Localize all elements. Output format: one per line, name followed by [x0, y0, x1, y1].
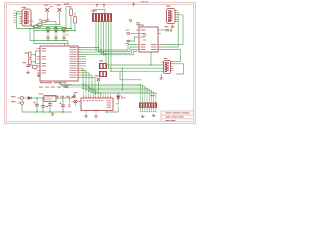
connector X2 contacts	[171, 11, 173, 21]
wire R8 left	[35, 23, 38, 25]
junction branch top	[122, 68, 123, 69]
wire R4 to net	[31, 54, 36, 56]
junctions gnd rail	[36, 111, 63, 112]
capacitor C2 label	[126, 42, 130, 45]
resistor R2	[70, 9, 73, 16]
connector X2 body	[167, 9, 176, 24]
wire VCC to SV1	[93, 8, 105, 10]
wire C14 stub	[68, 98, 70, 104]
title block box	[161, 111, 194, 122]
crystal Q1 body	[33, 65, 37, 68]
wire bus row lower drop	[64, 44, 66, 47]
wire Q2 emitter	[47, 32, 49, 37]
wire net elbow B	[61, 27, 63, 31]
wire xtal net vertical	[35, 51, 37, 65]
wire net RX horizontal	[17, 28, 72, 30]
wire IC1 mid pin stubs	[81, 57, 86, 66]
wire D2 down	[117, 99, 119, 103]
ground below X2	[171, 25, 175, 28]
transistor T4	[58, 8, 62, 12]
junction D2 bus	[118, 93, 119, 94]
wire X3 pin2 down	[21, 104, 23, 112]
wire elbow left upper	[29, 29, 31, 41]
power flag circle near IC2	[129, 19, 131, 21]
labels below IC1 row	[39, 87, 61, 88]
resistor R7	[42, 20, 46, 22]
wire IC1 PD6 to bundle	[81, 77, 95, 93]
dip switch S1 top label	[150, 95, 155, 96]
ground S1 b	[152, 114, 156, 117]
wire Q3 emitter	[55, 32, 57, 37]
junction PB7 bus	[105, 54, 106, 55]
ground IC3 a	[84, 114, 88, 117]
wire X1 bottom elbow	[31, 26, 34, 31]
junction PB6 bus	[103, 51, 104, 52]
wire net to IC1 pin	[36, 50, 37, 52]
wire C2 to IC2 pin2	[130, 37, 136, 41]
wire bus row lower	[34, 43, 68, 45]
transistor Q3 label	[54, 27, 58, 28]
resistor R7 label	[47, 18, 50, 21]
wire T1 to IC3	[77, 101, 81, 103]
ic IC2 body	[139, 27, 158, 52]
voltage regulator IC5 body	[44, 96, 56, 102]
supply VCC mark top right	[132, 3, 134, 7]
microcontroller IC1 pin names left column	[42, 48, 47, 73]
wire IC5 out rail	[56, 97, 73, 99]
connector X1 insert bar	[24, 11, 27, 24]
wire IC1 pin PB4 to bus	[78, 47, 99, 49]
voltage regulator IC5 label above	[39, 93, 44, 96]
transistor T6 label	[64, 81, 67, 84]
resistor R8	[38, 23, 42, 25]
junctions bus to S1 drops	[140, 84, 157, 95]
ground below C9	[26, 71, 30, 74]
transistor T6 label2	[69, 83, 72, 86]
ground below crystal	[37, 74, 41, 77]
capacitor C13 plus	[59, 102, 61, 104]
capacitor C11 plates	[41, 106, 45, 108]
junction PB4 bus	[98, 47, 99, 48]
wire D2 top to bus	[117, 94, 119, 96]
ic IC2 right pins	[158, 30, 161, 50]
wire bus row upper	[30, 40, 68, 42]
microcontroller IC1 pin names right column	[70, 47, 77, 78]
junction T4 net	[59, 24, 60, 25]
ground power section	[51, 112, 55, 115]
junction X4 net elbow	[150, 64, 151, 65]
capacitor C14 label column	[68, 103, 71, 106]
capacitor C3 label	[165, 26, 169, 27]
wire SV1 bus line 5 to connector X4	[106, 22, 162, 65]
resistor R1 label	[64, 4, 69, 5]
wire R9 left	[32, 26, 35, 28]
junction column A	[65, 28, 67, 30]
junctions bottom bus staircase	[59, 84, 95, 95]
wire IC1 PD5 to bundle	[81, 75, 92, 92]
capacitor C9 plates	[26, 65, 30, 66]
capacitor C2 near IC2	[127, 40, 131, 41]
diode D1	[28, 97, 31, 100]
connector X4 right pins	[171, 62, 174, 71]
connector X4 insert bar	[165, 62, 167, 72]
wire IC5 gnd down	[49, 101, 51, 103]
junction Q2 net	[47, 40, 49, 42]
resistor R9	[34, 25, 38, 27]
wire R9 net vertical	[31, 24, 33, 27]
wire R3 bottom	[74, 23, 76, 31]
screw terminal X3 stubs	[18, 98, 21, 103]
junction rail b	[62, 97, 63, 98]
wire bottom bus lines	[60, 84, 156, 93]
resistor R4 label	[25, 53, 29, 54]
wire SV1 bus line 1 to IC2	[96, 22, 136, 50]
wire bus drops to IC3	[84, 84, 111, 95]
jumper JP1 label	[99, 60, 103, 61]
capacitor C12 stub bottom	[49, 106, 51, 112]
jumper JP1 body	[99, 63, 107, 69]
connector X2 label	[166, 6, 171, 7]
resistor R2 label	[68, 6, 72, 7]
wire SV1 bus line 4 to IC2	[104, 22, 138, 55]
transistor Q4	[62, 29, 65, 32]
transistor T5	[97, 78, 100, 81]
wire bus rows drop to IC	[67, 41, 69, 47]
resistor R7 label left	[39, 18, 42, 21]
jumper JP2 body	[99, 71, 107, 77]
pin header SV1 label	[92, 10, 97, 11]
wire SV1 bus line 7 to connector X4	[111, 22, 162, 71]
wire X1 lower to bus	[19, 20, 33, 22]
dip switch S1 body	[139, 103, 157, 108]
capacitor C10 plates	[35, 104, 39, 106]
voltage regulator IC5 text	[46, 95, 55, 98]
capacitor C9 label	[23, 62, 27, 63]
wire R7 right	[46, 20, 56, 22]
pin header SV1 body	[92, 13, 112, 22]
transistor T3 label2	[50, 5, 53, 8]
wire crystal link	[30, 65, 33, 67]
junction Q4 net	[63, 40, 65, 42]
ic IC3 top pins	[84, 96, 111, 98]
junction elbow upper	[29, 28, 30, 29]
capacitor C13 stub top	[62, 98, 64, 105]
ic IC3 bottom pins	[86, 111, 106, 114]
connector X1 pin numbers	[14, 10, 16, 23]
junction net elbow A	[55, 28, 56, 29]
wire T5 down	[98, 81, 100, 90]
connector X1 pins	[19, 12, 22, 24]
frame inner border	[7, 5, 194, 122]
ic IC2 pin name rows	[141, 30, 157, 50]
wire SV1 top stub 2	[104, 9, 106, 13]
wire SV1 bus line 3 to IC2	[101, 22, 136, 53]
wire IC2 pin to C3	[161, 29, 166, 31]
connector X4 left pins	[162, 62, 164, 71]
resistor R5	[29, 59, 31, 65]
transistor T6	[65, 85, 68, 88]
screw terminal X3 pin 1	[21, 97, 24, 100]
ground IC3 b	[94, 114, 98, 117]
wire C1 to IC2 pin	[130, 33, 136, 35]
junction branch bottom	[122, 89, 123, 90]
supply +5V label	[74, 92, 78, 93]
junction C11 tap	[42, 97, 43, 98]
junction T5 bundle	[98, 89, 99, 90]
capacitor C3 right of IC2	[166, 30, 170, 31]
led D2 label	[123, 96, 126, 99]
title block text line 3	[166, 120, 170, 121]
capacitor C4 cross mark	[170, 28, 173, 32]
wire R3 top	[74, 12, 76, 17]
led D2 bottom label	[116, 102, 119, 105]
capacitor C6 plates	[54, 37, 57, 38]
label column right of transistors	[66, 30, 69, 33]
junction T3 net	[47, 21, 48, 22]
capacitor C12 plates	[48, 104, 52, 106]
junction C10 tap	[36, 97, 37, 98]
wire T1 down	[75, 103, 77, 106]
junction rail c	[69, 97, 70, 98]
capacitor C13 plates	[61, 105, 65, 107]
wire Q2 pin1 up elbow	[150, 52, 152, 65]
wire S1 bottom stubs	[141, 108, 156, 111]
supply +5V arrow	[73, 95, 76, 98]
microcontroller IC1 right pins	[78, 48, 81, 78]
supply +5V symbol above SV1 a	[96, 4, 98, 8]
wire Q4 emitter	[63, 32, 65, 37]
connector X2 pins	[175, 10, 178, 22]
junction net elbow B	[61, 30, 62, 31]
wire C0 stub	[137, 24, 139, 27]
wire X2 RXD	[177, 13, 180, 48]
wire R5 to net	[31, 61, 36, 63]
junctions data bus elbows	[95, 49, 111, 71]
wire SV1 top stub	[92, 9, 94, 13]
wire C5 bottom	[47, 38, 49, 40]
connector X1 body	[22, 9, 31, 26]
wire SV1 bus line 2 to IC2	[99, 22, 137, 52]
capacitor C10 plus	[33, 102, 35, 104]
wire IC3 pin right down	[106, 111, 118, 113]
transistor T1	[74, 100, 77, 103]
junction column C	[74, 30, 76, 32]
connector X1 pin contacts	[27, 11, 29, 23]
wire bus drops to S1	[141, 84, 156, 102]
wire X4 net vertical right	[180, 50, 182, 62]
title block text line 1	[166, 112, 172, 113]
capacitor C10 stub top	[36, 98, 38, 104]
wire net TX horizontal	[34, 30, 76, 32]
wire X4 pin2 right	[174, 63, 184, 65]
wire R7 left	[39, 20, 42, 22]
wire X1 net vertical	[16, 12, 18, 29]
wire D1 to IC5	[31, 97, 44, 99]
wire R8 right	[42, 23, 60, 25]
wire R2 bottom	[70, 16, 72, 29]
wire IC1 PD3 to bundle	[81, 71, 86, 90]
junction X1 net	[16, 13, 18, 15]
junction PB5 bus	[100, 49, 101, 50]
junction xtal B	[35, 61, 36, 62]
wire X2 TXD	[178, 15, 183, 45]
junction column B	[70, 28, 72, 30]
capacitor C5 plates	[46, 37, 49, 38]
wire C7 bottom	[63, 38, 65, 40]
connector X4 body	[164, 61, 171, 74]
junction rail a	[57, 97, 58, 98]
ic IC3 pin name row	[83, 99, 103, 102]
transistor T3 label	[44, 5, 48, 6]
wire T3 collector down	[46, 12, 48, 21]
wire D2 lower	[117, 106, 119, 112]
capacitor C1 label	[126, 29, 130, 32]
dip switch S1 pin labels	[140, 110, 157, 113]
wire X4 pin2 drop	[176, 64, 184, 74]
screw terminal X3 pin 2	[21, 102, 24, 105]
led D2	[117, 96, 123, 99]
wire IC2 pin lower stub	[161, 49, 181, 51]
wire IC1 PD4 to bundle	[81, 73, 89, 91]
wire IC1 pin PB7 to bus	[78, 53, 106, 55]
capacitor C11 label	[45, 105, 48, 108]
connector X1 label	[22, 7, 27, 8]
ground below X4	[159, 76, 163, 79]
capacitor C0 above IC2 pin	[136, 23, 139, 24]
transistor T1 label	[73, 97, 77, 98]
wire elbow left lower	[33, 31, 35, 44]
junctions bus to IC3	[83, 84, 102, 95]
transistor Q3	[54, 29, 57, 32]
connector X4 contacts	[167, 63, 169, 71]
supply +5V symbol above SV1 b	[103, 4, 105, 8]
connector X4 label	[164, 57, 168, 60]
frame outer border	[5, 3, 196, 124]
wire X1 pin2	[17, 13, 20, 15]
capacitor C7 plates	[62, 37, 65, 38]
wire MCU bottom stubs to bus	[60, 81, 64, 87]
wire SV1 bus line 6 to connector X4	[109, 22, 162, 68]
wire R2 top	[70, 7, 72, 10]
voltage regulator IC5 text2	[46, 98, 52, 101]
screw terminal X3 labels	[11, 96, 16, 97]
junction Q3 net	[55, 40, 57, 42]
label top right small	[141, 0, 145, 3]
transistor Q2 label	[46, 27, 50, 28]
wire C6 bottom	[55, 38, 57, 40]
wire branch down to bottom bus	[121, 68, 123, 90]
wire T4 collector down	[59, 12, 61, 25]
ic IC2 left pins	[136, 30, 139, 50]
title block text line 2	[166, 116, 171, 117]
transistor T4 label	[57, 5, 61, 6]
microcontroller IC1 left pins	[37, 49, 40, 74]
resistor R4	[29, 52, 31, 58]
microcontroller IC1 value below	[54, 82, 62, 83]
transistor Q2	[46, 29, 49, 32]
wire X3 to D1	[23, 97, 28, 99]
ground S1 a	[141, 115, 145, 118]
wire IC1 PD2 to bundle	[81, 68, 83, 88]
wire long net below	[120, 71, 141, 80]
transistor T5 label	[95, 75, 99, 76]
capacitor C11 stub bottom	[42, 107, 44, 112]
ic IC3 body	[81, 98, 113, 111]
ic IC2 label above	[139, 25, 144, 26]
ic IC3 right labels	[107, 100, 112, 108]
wire IC1 pin PB5 to bus	[78, 49, 101, 51]
wire T1 base stub	[72, 101, 74, 103]
capacitor C13 stub bottom	[62, 107, 64, 112]
wire R9 right	[38, 26, 62, 28]
wire X1 pin1	[17, 11, 20, 13]
microcontroller IC1 body	[40, 46, 78, 81]
capacitor C10 stub bottom	[36, 106, 38, 112]
capacitor C1 near IC2	[127, 33, 131, 34]
wire X4 pin1 right	[174, 61, 181, 63]
microcontroller IC1 label below	[40, 82, 52, 83]
resistor R9 label	[38, 26, 41, 29]
wire gnd rail	[22, 111, 72, 113]
wire column net vertical	[65, 6, 67, 29]
resistor R3	[74, 17, 77, 24]
capacitor C11 stub top	[42, 98, 44, 105]
wire X4 gnd stub	[161, 74, 163, 77]
wire crystal to ground	[34, 68, 36, 70]
connector X2 insert bar	[168, 10, 170, 22]
wire IC1 pin PB6 to bus	[78, 51, 104, 53]
junction xtal A	[35, 54, 36, 55]
transistor T3	[45, 8, 49, 12]
labels left of display row	[55, 96, 75, 97]
wire net elbow A	[55, 21, 57, 28]
transistor Q4 label	[62, 27, 66, 28]
wire X2 TXD to IC2	[161, 44, 183, 46]
wire X2 RXD to IC2	[161, 46, 178, 48]
